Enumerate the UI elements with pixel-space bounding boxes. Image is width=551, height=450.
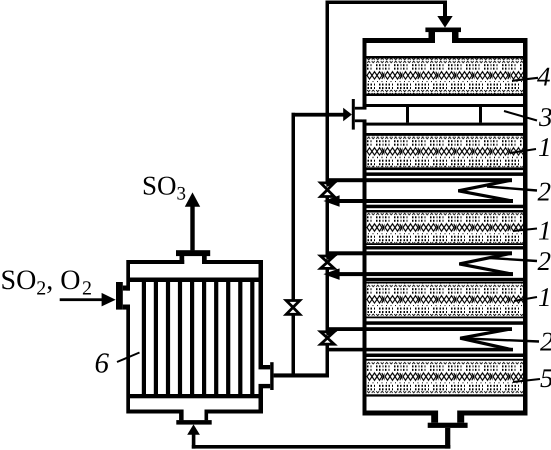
svg-text:SO3: SO3 — [142, 171, 186, 205]
leader to label 2 (middle) — [490, 258, 537, 261]
svg-text:SO2, O2: SO2, O2 — [1, 265, 93, 300]
svg-text:4: 4 — [537, 62, 551, 92]
label 5 leader — [513, 379, 540, 382]
svg-text:2: 2 — [540, 327, 551, 357]
zigzag U-turn (lower element) — [460, 329, 511, 349]
HX left nozzle — [126, 291, 130, 305]
catalyst bed 1 (middle) — [367, 210, 524, 213]
contact apparatus column shell — [363, 38, 528, 416]
lower tube sheet — [130, 394, 259, 398]
inlet tube line (lower element) — [326, 327, 513, 331]
HX right nozzle — [258, 369, 263, 384]
valve on pipe A — [286, 301, 300, 308]
return tube line (upper element) — [326, 199, 513, 203]
return tube line (middle element) — [326, 272, 513, 276]
top pipe (horizontal) — [326, 1, 448, 5]
upper tube sheet — [130, 278, 259, 283]
HX bottom nozzle — [184, 409, 205, 414]
tray 3 inlet nozzle — [352, 99, 355, 130]
riser pipe B — [326, 1, 330, 378]
tubes — [142, 282, 255, 394]
leader to label 2 (lower) — [461, 338, 539, 341]
catalyst bed 5 — [367, 359, 524, 361]
return arrow into pipe B (upper) — [323, 195, 339, 207]
corner wedge (middle) — [326, 256, 338, 261]
svg-text:2: 2 — [538, 246, 551, 276]
svg-text:2: 2 — [538, 177, 551, 207]
valve on pipe B (lower) — [321, 332, 335, 338]
feed line into tray 3 — [292, 113, 344, 117]
return tube line (lower element) — [326, 348, 514, 352]
catalyst bed 4 — [367, 56, 524, 59]
label 6 leader — [117, 353, 140, 363]
heat exchanger 6 shell — [126, 260, 263, 414]
heat exchange element 2 (lower) borders — [367, 321, 524, 325]
feed arrow (down) — [437, 16, 452, 28]
label 3 leader — [504, 111, 537, 121]
label 1 lower leader — [514, 297, 537, 301]
corner wedge (upper) — [326, 182, 338, 187]
leader to label 2 (upper) — [487, 187, 537, 191]
SO3 outlet pipe — [190, 206, 194, 250]
svg-text:1: 1 — [538, 132, 551, 162]
SO2+O2 inlet line — [60, 298, 103, 301]
top nozzle of column — [435, 38, 452, 44]
valve on pipe B (upper) — [321, 183, 335, 190]
svg-text:5: 5 — [540, 363, 551, 393]
return arrow into pipe B (middle) — [323, 268, 339, 280]
inlet tube line (middle element) — [326, 251, 513, 255]
SO2+O2 arrowhead — [102, 293, 116, 307]
column bottom nozzle — [438, 410, 457, 416]
valve on pipe B (middle) — [321, 256, 335, 262]
label 1 upper leader — [510, 149, 536, 153]
label 4 leader — [512, 78, 538, 81]
zigzag U-turn (upper element) — [458, 180, 512, 201]
HX top nozzle — [184, 260, 202, 265]
inlet tube line (upper element) — [326, 178, 513, 182]
feed pipe into top nozzle — [443, 1, 447, 17]
downcomer from column bottom — [445, 428, 450, 449]
svg-text:1: 1 — [538, 282, 551, 312]
corner wedge (lower) — [326, 331, 338, 336]
riser pipe A — [292, 113, 296, 378]
arrowhead into tray 3 — [343, 108, 352, 122]
heat exchange element 2 (upper) borders — [367, 172, 524, 176]
heat exchange element 2 (middle) borders — [367, 246, 524, 249]
svg-text:6: 6 — [95, 348, 110, 380]
svg-text:1: 1 — [538, 216, 551, 246]
catalyst bed 1 (lower) — [367, 282, 524, 284]
svg-text:3: 3 — [538, 102, 551, 132]
zigzag U-turn (middle element) — [459, 253, 512, 274]
arrow up into HX bottom — [187, 424, 200, 434]
SO3 arrow (up) — [185, 192, 200, 206]
catalyst bed 1 (upper) — [367, 133, 524, 136]
label 1 middle leader — [513, 229, 537, 232]
bottom pipe — [192, 445, 451, 449]
connector pipe HX to risers — [274, 373, 329, 377]
distributor tray 3 — [367, 104, 524, 107]
